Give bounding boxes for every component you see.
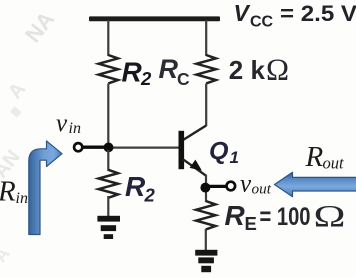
wire: RC to collector	[205, 84, 207, 127]
svg-text:V: V	[234, 0, 251, 26]
wire: R2 lower to ground	[107, 196, 109, 217]
wire: vout stub	[208, 185, 226, 188]
wire: emitter down	[205, 175, 207, 202]
svg-text:= 2.5 V: = 2.5 V	[280, 1, 356, 26]
svg-text:E: E	[245, 213, 257, 234]
svg-text:R: R	[305, 141, 324, 173]
node: vout junction	[200, 183, 210, 193]
label vin	[56, 110, 81, 137]
svg-text:out: out	[323, 154, 345, 173]
svg-text:R: R	[125, 171, 146, 202]
ground (right)	[195, 250, 217, 272]
terminal vout	[227, 182, 236, 191]
wire: vin stub	[82, 146, 105, 149]
svg-text:C: C	[177, 69, 190, 89]
svg-text:2: 2	[140, 68, 152, 89]
power rail VCC	[89, 16, 220, 21]
svg-text:in: in	[16, 190, 28, 207]
label Rin	[0, 176, 28, 208]
wire: rail to RC	[205, 20, 207, 56]
resistor R2 (upper)	[99, 55, 118, 83]
arrow Rout (blue)	[275, 172, 356, 196]
label R2 (lower)	[125, 171, 156, 206]
svg-text:R: R	[159, 54, 179, 84]
svg-text:v: v	[240, 171, 252, 198]
svg-text:= 100: = 100	[260, 203, 311, 231]
svg-text:NA: NA	[20, 7, 59, 48]
label VCC = 2.5 V	[234, 0, 356, 31]
svg-text:Ω: Ω	[314, 198, 346, 233]
label RC	[159, 54, 191, 89]
wire: RE to ground	[205, 229, 207, 251]
node: base junction	[104, 143, 114, 153]
svg-text:in: in	[69, 120, 81, 137]
wire: rail to R2 upper	[107, 20, 109, 56]
svg-text:Ω: Ω	[266, 52, 289, 87]
svg-text:R: R	[225, 200, 246, 231]
resistor R2 (lower)	[99, 170, 118, 198]
svg-text:1: 1	[230, 148, 239, 167]
label RE = 100 Ohm	[225, 198, 346, 234]
label 2 kOhm	[229, 52, 289, 87]
svg-text:2: 2	[144, 185, 156, 206]
arrow Rin (blue)	[29, 141, 62, 235]
svg-text:CC: CC	[250, 14, 274, 31]
resistor RC	[197, 55, 216, 83]
svg-text:R: R	[122, 57, 143, 88]
wire: base	[110, 147, 179, 149]
wire: R2 upper to base node	[107, 84, 109, 146]
svg-text:Q: Q	[209, 138, 229, 166]
wire: base node to R2 lower	[107, 150, 109, 171]
svg-text:2 k: 2 k	[229, 55, 266, 85]
ground (left)	[97, 216, 120, 239]
svg-text:A: A	[0, 244, 14, 267]
label vout	[240, 171, 272, 198]
transistor Q1	[179, 126, 207, 176]
resistor RE	[196, 201, 215, 229]
svg-text:out: out	[252, 181, 272, 198]
label Q1	[209, 138, 239, 168]
svg-text:A: A	[4, 78, 30, 103]
label R2 (upper)	[122, 57, 153, 90]
label Rout	[305, 141, 345, 173]
terminal vin	[74, 143, 82, 151]
svg-text:v: v	[56, 110, 68, 137]
svg-text:R: R	[0, 176, 16, 208]
